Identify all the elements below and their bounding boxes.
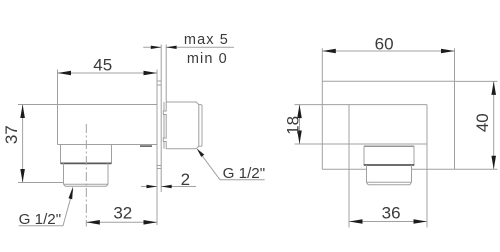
dimension 18	[299, 105, 301, 144]
body (side view)	[58, 105, 158, 145]
arrow leader left	[69, 187, 74, 200]
arrow 36 left	[349, 219, 363, 224]
svg-text:37: 37	[2, 125, 21, 144]
arrowheads	[20, 46, 496, 225]
arrow 40 top	[491, 81, 496, 95]
arrow 45 left	[58, 71, 72, 76]
svg-text:32: 32	[113, 204, 132, 223]
svg-text:max 5: max 5	[184, 32, 229, 48]
arrow 45 right	[144, 71, 158, 76]
arrow 2 left	[147, 185, 158, 189]
arrow 18 bottom	[297, 131, 302, 145]
dimension 40	[455, 81, 498, 169]
svg-text:G 1/2": G 1/2"	[19, 211, 62, 228]
svg-text:60: 60	[375, 34, 394, 53]
leader G 1/2 right	[197, 149, 264, 180]
arrow 60 right	[441, 49, 455, 54]
front view outer plate	[322, 81, 454, 169]
dimension 37	[18, 105, 63, 183]
arrow max5 right	[166, 46, 176, 49]
arrow leader right	[197, 149, 204, 157]
svg-text:18: 18	[283, 116, 302, 135]
arrow 40 bottom	[491, 156, 496, 170]
svg-text:G 1/2": G 1/2"	[223, 165, 266, 182]
arrow 37 top	[20, 105, 25, 119]
arrow 36 right	[414, 219, 428, 224]
in-wall fitting body (side view)	[163, 102, 202, 149]
svg-text:min 0: min 0	[187, 51, 228, 67]
dimension 36	[349, 105, 427, 228]
arrow 32 right	[144, 220, 158, 225]
outlet flange (side view)	[61, 145, 112, 164]
arrow 37 bottom	[20, 169, 25, 183]
arrow 60 left	[322, 49, 336, 54]
front view thread	[367, 165, 412, 185]
dimension max 5 / min 0	[143, 46, 234, 48]
svg-text:2: 2	[181, 170, 190, 189]
centerline (side view outlet)	[85, 124, 87, 227]
arrow 32 left	[86, 220, 100, 225]
front view flange	[364, 146, 414, 165]
leader G 1/2 left	[19, 190, 73, 226]
threaded outlet G 1/2 (side view)	[64, 163, 109, 186]
arrow 18 top	[297, 105, 302, 119]
svg-text:36: 36	[382, 203, 401, 222]
in-wall fitting extension line	[165, 45, 167, 103]
arrow max5 left	[151, 46, 161, 49]
front view body face (inner rectangle)	[295, 105, 428, 144]
dimension 45	[58, 70, 158, 105]
dimension 32	[86, 221, 157, 223]
dimension 60	[322, 48, 454, 81]
svg-text:40: 40	[473, 113, 492, 132]
seam under body right (side view)	[140, 145, 152, 147]
wall plate (side view)	[157, 45, 161, 226]
arrow 2 right	[161, 185, 172, 189]
dimension 2	[141, 186, 196, 188]
svg-text:45: 45	[93, 56, 112, 75]
